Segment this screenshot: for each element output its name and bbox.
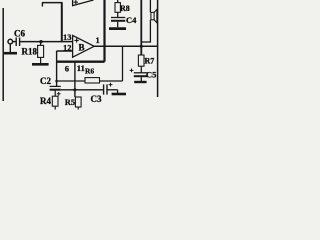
plus sign C3 [109, 83, 113, 87]
capacitor C3 plates [103, 84, 105, 94]
node output junction [140, 45, 143, 48]
wire output pin1 [94, 45, 157, 47]
svg-text:C4: C4 [126, 15, 137, 25]
svg-text:B: B [79, 43, 85, 53]
wire C2 to R4 [54, 90, 56, 97]
wire vertical to pin13 [61, 3, 63, 42]
svg-text:C5: C5 [146, 69, 156, 79]
capacitor C4 plates [111, 17, 125, 19]
node pin11 junction [73, 88, 76, 91]
ground C5 [134, 81, 146, 83]
wire C5 to ground [140, 77, 142, 81]
wire vertical x141 [140, 0, 142, 55]
wire R6 riser [122, 46, 124, 81]
wire C3 to ground [107, 89, 118, 91]
svg-text:R6: R6 [85, 66, 94, 75]
wire R7 to C5 [140, 66, 142, 72]
svg-text:C3: C3 [91, 94, 102, 104]
plus sign op-amp B [74, 38, 78, 42]
wire R5 bottom stub [77, 107, 79, 110]
plus sign op-amp A [74, 0, 78, 4]
ground C4 [109, 27, 126, 30]
right border [157, 0, 159, 97]
wire R4 bottom stub [54, 106, 56, 109]
wire speaker link [141, 41, 150, 43]
wire C6 to pin13 [20, 41, 73, 43]
plus sign C5 [130, 69, 134, 73]
wire top-left stub [41, 3, 43, 7]
resistor R5 box [75, 97, 81, 107]
op-amp U1B triangle [73, 35, 95, 57]
resistor R6 box [85, 78, 100, 83]
speaker BL [151, 12, 154, 19]
wire pin11 vertical [74, 62, 76, 97]
svg-text:C2: C2 [40, 76, 51, 86]
wire R18 top stub [40, 42, 42, 46]
plus sign C2 [57, 92, 61, 96]
resistor R8 box [115, 3, 120, 13]
resistor R7 box [138, 55, 144, 66]
wire C2 bottom to C3 [61, 89, 103, 91]
svg-text:C6: C6 [14, 29, 25, 39]
svg-text:11: 11 [77, 63, 85, 73]
wire top-left horizontal [42, 2, 63, 4]
wire R6 net [57, 80, 123, 82]
resistor R8 chain [117, 0, 119, 3]
wire R8 to C4 [117, 12, 119, 17]
capacitor C2 plates [50, 85, 61, 87]
left border [2, 8, 4, 101]
op-amp U1A partial [73, 0, 94, 6]
resistor R18 box [38, 45, 44, 57]
wire speaker lower [149, 20, 151, 43]
svg-text:R7: R7 [145, 56, 155, 65]
svg-text:R5: R5 [65, 97, 75, 107]
wire C4 to ground [117, 22, 119, 27]
capacitor C6 plates [15, 37, 17, 46]
wire pin12 [57, 50, 73, 52]
wire pin12 down to C2 [56, 51, 58, 86]
svg-text:R4: R4 [40, 96, 51, 106]
resistor R4 box [52, 96, 58, 106]
svg-text:6: 6 [65, 64, 69, 74]
svg-text:R8: R8 [120, 4, 130, 13]
capacitor C5 plates [134, 72, 148, 74]
ground C3 [112, 93, 126, 96]
node pin6 junction [55, 80, 58, 83]
wire feedback thick [57, 61, 105, 63]
wire input ground drop [9, 44, 11, 53]
svg-text:R18: R18 [22, 47, 38, 57]
input terminal circle [8, 39, 13, 44]
wire speaker upper [149, 0, 151, 12]
ground input [4, 52, 17, 55]
wire vertical x104 [103, 0, 105, 62]
svg-text:13: 13 [63, 32, 72, 42]
node R18 junction [39, 40, 42, 43]
svg-text:12: 12 [63, 42, 72, 52]
wire R18 bottom [40, 57, 42, 63]
wire input to pin13 [13, 41, 16, 43]
svg-text:1: 1 [96, 35, 100, 45]
ground R18 [32, 63, 49, 66]
